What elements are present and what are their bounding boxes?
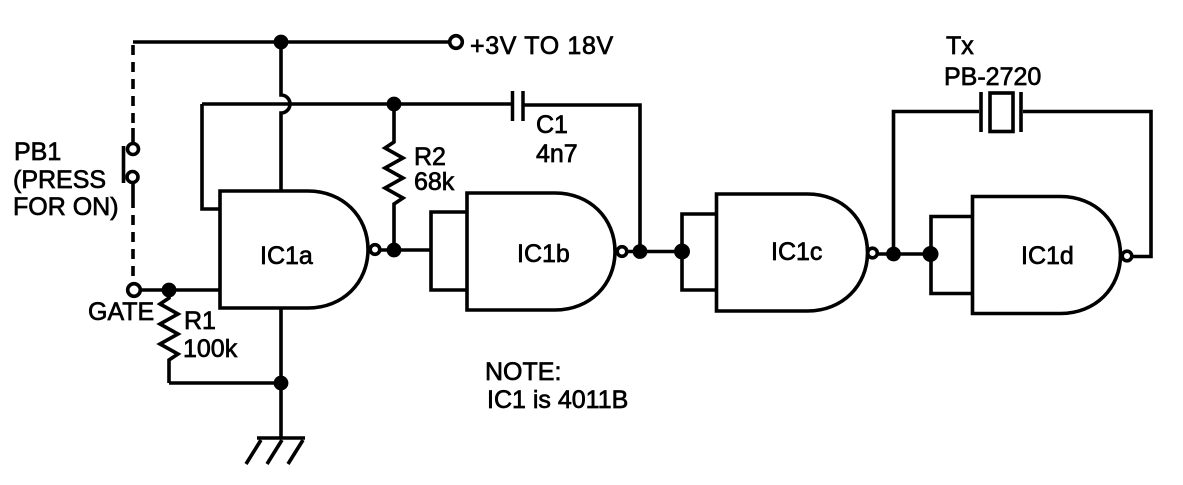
NAND gate IC1c	[717, 194, 868, 311]
resistor R1	[160, 290, 178, 383]
IC1d output bubble	[1122, 251, 1132, 261]
svg-text:IC1b: IC1b	[517, 240, 570, 268]
junction GATE node	[162, 283, 177, 298]
ground	[246, 383, 305, 464]
svg-text:PB1: PB1	[14, 138, 61, 166]
wire: feedback line from node A down to IC1a input 1	[202, 104, 220, 209]
capacitor C1	[513, 91, 524, 121]
terminal GATE	[128, 284, 141, 297]
svg-text:IC1d: IC1d	[1021, 242, 1074, 270]
svg-text:R2: R2	[414, 143, 446, 171]
junction node A (R2 top)	[387, 97, 402, 112]
IC1a output bubble	[370, 245, 380, 255]
junction on supply rail	[274, 35, 289, 50]
wire: IC1a bottom to ground node	[279, 307, 283, 383]
wire: node A horizontal line to C1	[202, 102, 512, 106]
IC1d tied inputs	[931, 217, 973, 294]
junction IC1b output node	[633, 244, 648, 259]
wire: dashed link supply to PB1	[131, 45, 135, 142]
wire: GATE terminal to IC1a input 2	[140, 288, 220, 292]
svg-text:100k: 100k	[183, 335, 238, 363]
wire: R1 bottom to ground node	[169, 381, 281, 385]
wire: IC1a output to IC1b input	[380, 248, 431, 252]
transducer Tx PB-2720	[981, 92, 1021, 132]
wire: Tx right leg to IC1d output	[1023, 112, 1151, 257]
svg-text:Tx: Tx	[946, 32, 974, 60]
NAND gate IC1d	[973, 197, 1121, 314]
IC1c output bubble	[868, 248, 878, 258]
junction Tx left leg node	[886, 247, 901, 262]
svg-text:(PRESS: (PRESS	[13, 166, 106, 194]
svg-text:R1: R1	[184, 307, 216, 335]
junction ground node	[274, 376, 289, 391]
wire: C1 to IC1b output node	[523, 105, 640, 251]
svg-text:4n7: 4n7	[536, 140, 578, 168]
svg-text:+3V TO 18V: +3V TO 18V	[470, 32, 614, 60]
svg-text:PB-2720: PB-2720	[944, 63, 1041, 91]
IC1b output bubble	[617, 247, 627, 257]
junction IC1c input node	[674, 244, 690, 260]
NAND gate IC1a	[220, 191, 368, 308]
junction R2 bottom at IC1a output	[387, 243, 402, 258]
svg-text:NOTE:: NOTE:	[485, 358, 561, 386]
svg-text:GATE: GATE	[88, 298, 154, 326]
terminal +3V TO 18V	[450, 36, 463, 49]
IC1b tied inputs	[431, 212, 467, 290]
svg-text:68k: 68k	[414, 168, 455, 196]
junction IC1d input node	[923, 246, 939, 262]
wire: IC1c output to IC1d input	[878, 252, 932, 256]
svg-text:FOR ON): FOR ON)	[13, 193, 119, 221]
wire: +V supply rail	[133, 40, 449, 44]
svg-text:IC1 is 4011B: IC1 is 4011B	[487, 386, 628, 414]
resistor R2	[385, 104, 403, 250]
NAND gate IC1b	[467, 193, 615, 310]
wire: dashed link PB1 to GATE terminal	[131, 198, 135, 283]
wire: Tx left leg	[894, 112, 980, 255]
wire: supply to IC1a top (with crossover hop)	[281, 42, 290, 190]
svg-text:IC1c: IC1c	[771, 238, 822, 266]
switch PB1	[124, 144, 139, 199]
IC1c tied inputs	[682, 214, 717, 290]
svg-text:C1: C1	[536, 111, 568, 139]
wire: IC1b output to IC1c input	[627, 250, 682, 254]
svg-text:IC1a: IC1a	[260, 242, 313, 270]
